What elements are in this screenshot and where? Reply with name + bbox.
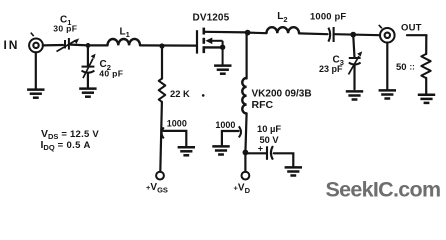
svg-text:1000: 1000 [167, 119, 187, 129]
svg-text:10 µF: 10 µF [257, 123, 281, 134]
svg-text:IN: IN [4, 38, 20, 52]
svg-text:::: :: [410, 63, 415, 72]
svg-text:VK200 09/3B: VK200 09/3B [252, 89, 312, 100]
svg-text:23 pF: 23 pF [319, 64, 343, 74]
svg-text:+: + [258, 144, 263, 154]
svg-text:DV1205: DV1205 [193, 13, 230, 24]
svg-text:50: 50 [396, 62, 407, 73]
svg-text:40 pF: 40 pF [99, 69, 123, 79]
svg-text:RFC: RFC [252, 99, 274, 111]
svg-text:30 pF: 30 pF [53, 24, 77, 34]
svg-text:22 K: 22 K [170, 88, 190, 99]
svg-text:OUT: OUT [401, 22, 422, 33]
svg-text:1000: 1000 [215, 120, 235, 130]
svg-text:SeekIC.com: SeekIC.com [326, 177, 441, 201]
svg-text:1000 pF: 1000 pF [310, 10, 346, 21]
